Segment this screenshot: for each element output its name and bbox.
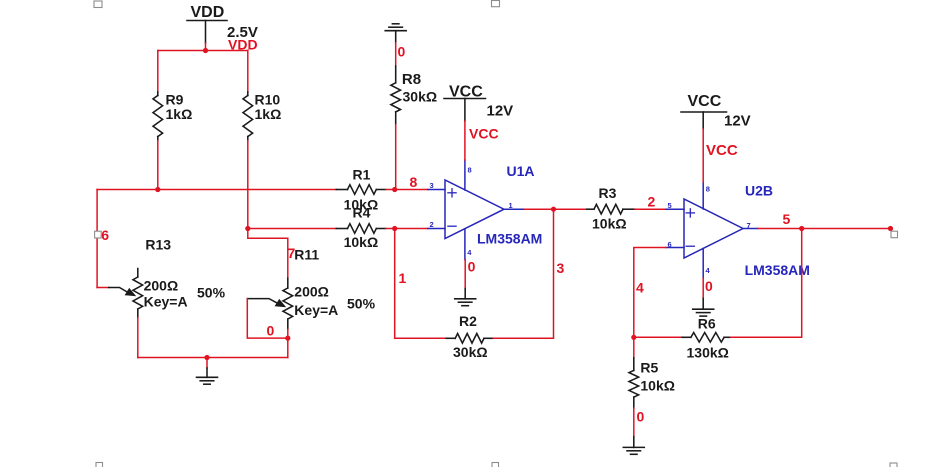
- svg-text:R11: R11: [294, 247, 319, 263]
- wire VDD horizontal: [158, 50, 248, 52]
- junction VDD: [203, 48, 208, 53]
- svg-text:R5: R5: [640, 360, 658, 376]
- ground bottom: [197, 368, 218, 384]
- svg-text:2: 2: [648, 194, 656, 210]
- wire VDD to R9: [157, 51, 159, 93]
- svg-text:10kΩ: 10kΩ: [640, 378, 675, 394]
- resistor R9: [153, 92, 163, 141]
- resistor R6: [682, 333, 731, 343]
- junction output R6: [799, 226, 804, 231]
- page marker top-mid: [492, 1, 500, 7]
- wire VCC to pin8 U2B: [702, 129, 704, 182]
- svg-text:6: 6: [101, 227, 109, 243]
- svg-text:50%: 50%: [347, 296, 376, 312]
- wire left vertical node 6: [96, 190, 98, 288]
- junction node 1: [392, 226, 397, 231]
- svg-text:VCC: VCC: [688, 93, 722, 110]
- junction node 4: [631, 335, 636, 340]
- wire R13 bottom: [137, 318, 139, 358]
- svg-text:3: 3: [430, 181, 434, 190]
- power symbol VDD: [187, 20, 227, 22]
- ground R5: [623, 437, 644, 455]
- resistor R10: [243, 92, 253, 141]
- svg-text:R4: R4: [353, 205, 371, 221]
- junction bottom ground: [204, 355, 209, 360]
- page marker bottom-left: [96, 463, 103, 467]
- wire R2 left: [395, 337, 447, 339]
- svg-text:4: 4: [636, 280, 644, 296]
- wire R5 to ground: [633, 408, 635, 437]
- svg-text:8: 8: [468, 166, 472, 175]
- wire bottom ground net: [138, 357, 288, 359]
- svg-text:8: 8: [410, 174, 418, 190]
- wire R4 to pin2: [386, 228, 428, 230]
- svg-text:10kΩ: 10kΩ: [592, 216, 627, 232]
- wire R11 bottom: [287, 329, 289, 357]
- svg-text:LM358AM: LM358AM: [477, 231, 542, 247]
- resistor R1: [336, 185, 385, 195]
- page marker top-left: [94, 1, 102, 8]
- svg-text:200Ω: 200Ω: [294, 284, 329, 300]
- svg-text:1: 1: [399, 270, 407, 286]
- resistor R8: [391, 66, 401, 125]
- svg-text:30kΩ: 30kΩ: [403, 89, 438, 105]
- svg-text:0: 0: [267, 323, 275, 339]
- svg-text:10kΩ: 10kΩ: [344, 234, 379, 250]
- wire R3 to pin5: [635, 208, 666, 210]
- svg-text:0: 0: [705, 278, 713, 294]
- wire node4 to R5: [633, 337, 635, 358]
- potentiometer R13: [109, 269, 143, 318]
- svg-text:1kΩ: 1kΩ: [255, 106, 282, 122]
- svg-text:12V: 12V: [487, 103, 514, 120]
- svg-text:VCC: VCC: [449, 84, 483, 101]
- svg-text:2: 2: [430, 220, 434, 229]
- svg-text:7: 7: [747, 221, 751, 230]
- svg-text:LM358AM: LM358AM: [745, 262, 810, 278]
- svg-text:Key=A: Key=A: [144, 294, 188, 310]
- wire pin6 to node4: [634, 248, 666, 338]
- svg-text:U2B: U2B: [745, 183, 773, 199]
- svg-text:R2: R2: [459, 313, 477, 329]
- power symbol VCC (U1A): [444, 98, 486, 100]
- potentiometer R11: [247, 278, 292, 329]
- resistor R5: [629, 358, 639, 408]
- svg-text:12V: 12V: [724, 113, 751, 130]
- svg-text:3: 3: [557, 260, 565, 276]
- svg-text:6: 6: [668, 240, 672, 249]
- wire node1 vertical: [394, 229, 396, 339]
- resistor R3: [587, 204, 635, 214]
- wire pin4 U2B to ground: [702, 278, 704, 298]
- wire to R13 wiper: [97, 287, 109, 289]
- page marker bottom-right: [890, 463, 897, 467]
- svg-text:8: 8: [706, 185, 710, 194]
- junction R9-wire: [155, 187, 160, 192]
- svg-text:30kΩ: 30kΩ: [453, 344, 488, 360]
- svg-text:4: 4: [467, 248, 472, 257]
- svg-text:0: 0: [637, 409, 645, 425]
- junction U1A out: [551, 207, 556, 212]
- svg-text:VDD: VDD: [191, 4, 225, 21]
- junction node 8: [392, 187, 397, 192]
- wire ground to R8: [395, 43, 397, 66]
- svg-text:R13: R13: [145, 237, 171, 253]
- junction R4 tap: [245, 226, 250, 231]
- svg-text:U1A: U1A: [507, 163, 535, 179]
- svg-text:VCC: VCC: [469, 126, 499, 142]
- power symbol VCC (U2B): [681, 111, 727, 113]
- junction R11 bottom: [285, 336, 290, 341]
- svg-text:4: 4: [706, 266, 711, 275]
- wire R4 left: [248, 228, 336, 230]
- wire R2 right: [493, 209, 553, 338]
- terminal square output: [891, 231, 898, 238]
- ground U2B: [693, 299, 714, 317]
- svg-text:130kΩ: 130kΩ: [687, 345, 729, 361]
- svg-text:R1: R1: [353, 167, 371, 183]
- svg-text:50%: 50%: [197, 285, 226, 301]
- wire pin4 U1A to ground: [464, 260, 466, 289]
- wire R1 to pin3: [386, 189, 428, 191]
- svg-text:200Ω: 200Ω: [144, 278, 179, 294]
- ground U1A: [455, 289, 476, 306]
- resistor R2: [446, 334, 493, 344]
- svg-text:VCC: VCC: [706, 142, 738, 159]
- wire U1A output: [525, 208, 587, 210]
- wire VDD to R10: [247, 51, 249, 93]
- wire node8 horizontal: [97, 189, 336, 191]
- wire output net 5: [758, 228, 891, 230]
- page marker bottom-mid: [492, 463, 499, 467]
- svg-text:R8: R8: [402, 71, 421, 88]
- svg-text:Key=A: Key=A: [294, 302, 338, 318]
- svg-text:1kΩ: 1kΩ: [166, 106, 193, 122]
- wire to ground bottom: [206, 358, 208, 369]
- junction output end: [888, 226, 893, 231]
- svg-text:R3: R3: [599, 185, 617, 201]
- wire R10 down: [247, 141, 249, 229]
- svg-text:5: 5: [668, 201, 672, 210]
- ground top (inverted): [385, 24, 406, 43]
- op-amp U2B: [666, 182, 758, 278]
- wire R11 wiper loop: [247, 299, 287, 339]
- svg-text:R6: R6: [698, 316, 716, 332]
- svg-text:0: 0: [468, 259, 476, 275]
- svg-text:5: 5: [783, 211, 791, 227]
- wire R6 to output: [731, 229, 802, 338]
- wire VCC to pin8 U1A: [464, 121, 466, 160]
- op-amp U1A: [428, 160, 525, 260]
- svg-text:1: 1: [509, 201, 513, 210]
- wire jog to R11: [248, 229, 288, 279]
- resistor R4: [336, 224, 385, 234]
- wire R8 to node 8: [395, 125, 397, 190]
- terminal square node 6: [95, 231, 102, 238]
- wire R9 to node: [157, 141, 159, 190]
- svg-text:0: 0: [398, 44, 406, 60]
- wire node4 to R6: [634, 336, 682, 338]
